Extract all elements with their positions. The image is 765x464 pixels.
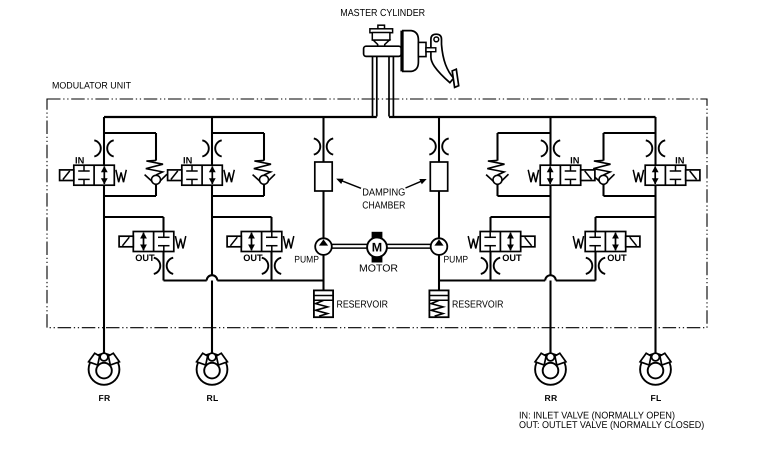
wheel brake FR (89, 328, 120, 403)
wire: right outlet collector (439, 279, 596, 281)
svg-text:MASTER CYLINDER: MASTER CYLINDER (340, 8, 425, 19)
wire: RL check-valve bypass loop (212, 133, 264, 196)
check valve RL (253, 133, 275, 196)
svg-text:IN: IN (183, 156, 193, 166)
svg-text:MODULATOR UNIT: MODULATOR UNIT (52, 80, 131, 91)
motor shaft left (332, 244, 367, 248)
solenoid valve OUT (RL) (227, 232, 294, 264)
svg-text:IN: IN (75, 156, 85, 166)
wire hop over RL circuit (207, 275, 218, 280)
master cylinder outlet pipe right (389, 56, 393, 116)
svg-text:IN: IN (675, 156, 685, 166)
wire: right primary bus (389, 116, 656, 118)
master cylinder assembly (364, 25, 459, 87)
wire: left primary bus (104, 116, 377, 118)
damping chamber right (430, 162, 447, 191)
solenoid valve OUT (FR) (119, 232, 186, 264)
wire hop over RR circuit (545, 275, 556, 280)
solenoid valve IN (RL) (168, 156, 235, 186)
wire: FL outlet branch (596, 217, 656, 281)
check valve RR (486, 133, 508, 196)
solenoid valve OUT (FL) (573, 232, 640, 264)
svg-text:OUT: OUT (607, 252, 627, 263)
solenoid valve OUT (RR) (468, 232, 535, 264)
motor shaft right (387, 244, 431, 248)
svg-text:PUMP: PUMP (294, 255, 319, 266)
wire: left outlet collector (164, 279, 324, 281)
wire: FR circuit (103, 117, 105, 353)
port seal FL outlet (586, 258, 605, 274)
check valve FL (592, 133, 614, 196)
reservoir left (314, 290, 333, 317)
port seal RR inlet (541, 140, 560, 156)
wire: FR check-valve bypass loop (104, 133, 156, 196)
port seal FR inlet (94, 140, 113, 156)
svg-text:M: M (372, 241, 382, 255)
modulator unit dashed enclosure (47, 99, 707, 328)
wire: left pump column (322, 117, 324, 290)
svg-text:OUT: OUTLET VALVE (NORMALLY CL: OUT: OUTLET VALVE (NORMALLY CLOSED) (519, 420, 704, 431)
wire: RR check-valve bypass loop (498, 133, 551, 196)
master cylinder outlet pipe left (373, 56, 377, 116)
motor M (367, 232, 387, 262)
reservoir right (429, 290, 448, 317)
svg-text:FL: FL (650, 393, 661, 403)
wire: RL circuit (211, 117, 213, 353)
svg-text:IN: IN (570, 156, 580, 166)
wheel brake RR (535, 328, 566, 403)
wheel brake FL (640, 328, 671, 403)
wheel brake RL (197, 328, 228, 403)
svg-text:DAMPING: DAMPING (362, 187, 405, 198)
wire: RR circuit (549, 117, 551, 353)
wire: RR outlet branch (491, 217, 551, 281)
svg-text:PUMP: PUMP (444, 255, 469, 266)
svg-text:OUT: OUT (135, 252, 155, 263)
port seal RR outlet (481, 258, 500, 274)
solenoid valve IN (FL) (633, 156, 700, 186)
wire: right pump column (438, 117, 440, 290)
solenoid valve IN (FR) (60, 156, 127, 186)
svg-text:RL: RL (206, 393, 218, 403)
port seal RL inlet (202, 140, 221, 156)
pump left (315, 238, 332, 255)
svg-text:RR: RR (544, 393, 558, 403)
port seal RL outlet (262, 258, 281, 274)
wire: FL check-valve bypass loop (604, 133, 656, 196)
check valve FR (145, 133, 167, 196)
pump right (431, 238, 448, 255)
wire: FL circuit (654, 117, 656, 353)
wire: RL outlet branch (212, 217, 272, 281)
svg-text:OUT: OUT (502, 252, 522, 263)
port seal FR outlet (154, 258, 173, 274)
port seal left damping column (314, 138, 333, 154)
svg-text:FR: FR (98, 393, 111, 403)
damping chamber left (315, 162, 332, 191)
port seal right damping column (429, 138, 448, 154)
svg-text:OUT: OUT (243, 252, 263, 263)
svg-text:MOTOR: MOTOR (359, 263, 398, 274)
wire: FR outlet branch (104, 217, 164, 281)
port seal FL inlet (646, 140, 665, 156)
solenoid valve IN (RR) (528, 156, 595, 186)
svg-text:RESERVOIR: RESERVOIR (452, 299, 504, 310)
label DAMPING CHAMBER with pointers (336, 179, 427, 212)
svg-text:RESERVOIR: RESERVOIR (337, 299, 389, 310)
svg-text:CHAMBER: CHAMBER (362, 200, 405, 211)
